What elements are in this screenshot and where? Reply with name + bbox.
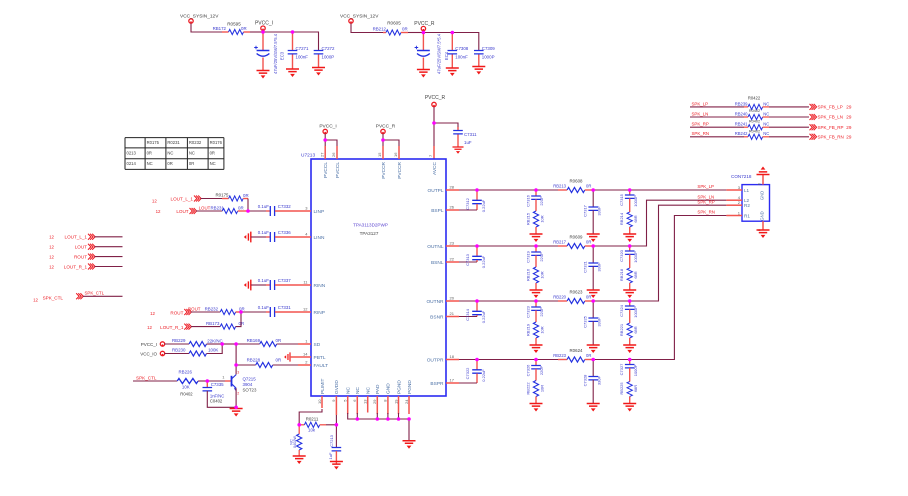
svg-text:VCC_SYSIN_12V: VCC_SYSIN_12V <box>340 14 379 20</box>
resistor R0623 0R series <box>558 300 567 302</box>
svg-text:C7314: C7314 <box>465 308 470 321</box>
capacitor C7309 1000P <box>478 49 480 52</box>
svg-text:29: 29 <box>846 135 852 140</box>
wire ROUT to RB232 <box>191 311 220 313</box>
wire row to snubber <box>477 359 536 361</box>
svg-text:LOUT: LOUT <box>176 209 188 214</box>
svg-text:1000P: 1000P <box>633 306 638 318</box>
pin 15 PVCCR <box>382 146 384 159</box>
junction dots overlay <box>206 30 632 426</box>
connector CON7218 body <box>742 185 770 222</box>
wire C7337 to RINN pin 11 <box>275 284 298 286</box>
pin 4 L2 CON7218 <box>726 199 742 201</box>
svg-text:22K/NC: 22K/NC <box>207 338 222 343</box>
svg-text:R0211: R0211 <box>306 417 319 422</box>
svg-text:RB173: RB173 <box>206 321 220 326</box>
ground for C7309 <box>472 67 485 75</box>
wire SPK_LN output row <box>459 245 477 247</box>
svg-text:SPK_LN: SPK_LN <box>692 111 709 116</box>
svg-text:0R: 0R <box>167 161 172 166</box>
resistor R0175 0R <box>222 198 229 200</box>
resistor RB241 NC <box>744 126 748 128</box>
svg-text:14: 14 <box>303 352 308 357</box>
svg-text:220P: 220P <box>539 252 544 262</box>
svg-text:0213: 0213 <box>127 151 137 156</box>
wire R0595 to PVCC_I node <box>250 31 263 33</box>
wire SPK_RP to connector <box>630 205 727 301</box>
svg-text:0.22uF: 0.22uF <box>481 369 486 382</box>
svg-text:330P: 330P <box>596 375 601 385</box>
svg-text:100nF: 100nF <box>455 55 468 60</box>
svg-text:C0402: C0402 <box>210 399 223 404</box>
wire base node to Q7215 base <box>207 380 225 382</box>
svg-text:NC: NC <box>763 101 769 106</box>
off-page connector SPK_FB_RN <box>810 134 817 140</box>
capacitor C7337 0.1uF <box>251 284 266 286</box>
ground for C7319 <box>530 290 543 298</box>
svg-text:0R: 0R <box>586 353 591 358</box>
svg-text:20: 20 <box>450 296 455 301</box>
power terminal PVCC_R (top) <box>421 26 425 30</box>
svg-text:OUTNL: OUTNL <box>427 244 444 250</box>
svg-text:12: 12 <box>49 245 54 250</box>
svg-text:26: 26 <box>331 152 336 157</box>
svg-text:R0175: R0175 <box>216 193 229 198</box>
svg-text:29: 29 <box>372 399 377 404</box>
svg-text:PVCC_R: PVCC_R <box>414 21 435 27</box>
pin 29 PAD <box>376 396 378 414</box>
wire SPK_LP to connector <box>630 189 727 191</box>
wire to C7327 <box>593 359 630 361</box>
svg-text:0R: 0R <box>402 27 408 32</box>
capacitor C7315 1000P <box>629 190 631 195</box>
svg-text:12: 12 <box>49 264 54 269</box>
svg-text:SPK_CTL: SPK_CTL <box>85 291 105 296</box>
svg-text:ROUT: ROUT <box>170 310 183 315</box>
capacitor C7320 1000P <box>629 246 631 251</box>
ground for pad bus <box>403 441 416 449</box>
svg-text:SPK_CTL: SPK_CTL <box>136 375 157 380</box>
svg-text:R0402: R0402 <box>180 392 193 397</box>
svg-text:0R: 0R <box>210 151 215 156</box>
ground for EC4 <box>417 70 430 78</box>
svg-text:68R: 68R <box>633 385 638 392</box>
wire R0175 to LINP node <box>247 199 249 212</box>
svg-text:0.1uF: 0.1uF <box>258 204 270 209</box>
svg-text:17: 17 <box>450 378 455 383</box>
resistor RB242 NC <box>744 136 748 138</box>
svg-text:PBTL: PBTL <box>314 355 326 361</box>
svg-text:0R: 0R <box>586 294 591 299</box>
ground for RB218 <box>623 290 636 298</box>
wire row to snubber <box>477 189 536 191</box>
svg-text:LOUT_R_1: LOUT_R_1 <box>64 264 88 269</box>
svg-text:PAD: PAD <box>375 384 381 394</box>
svg-text:0R: 0R <box>241 26 247 31</box>
ground for EC3 <box>257 71 270 79</box>
capacitor C7331 0.1uF <box>241 311 266 313</box>
off-page connector SPK_FB_RP <box>810 124 817 130</box>
resistor R0595 0R <box>222 31 229 33</box>
svg-text:OUTPR: OUTPR <box>427 357 444 363</box>
wire snubber to R0624 <box>536 359 558 361</box>
svg-text:0.1uF: 0.1uF <box>258 230 270 235</box>
svg-text:0.22uF: 0.22uF <box>481 310 486 323</box>
resistor to ground NC 0402W <box>298 425 300 434</box>
pin 13 NC <box>367 396 369 413</box>
pin 28 OUTPL <box>446 189 459 191</box>
off-page connector SPK_FB_LN <box>810 114 817 120</box>
svg-text:21: 21 <box>450 311 455 316</box>
svg-text:C7322: C7322 <box>465 367 470 380</box>
capacitor C7324 1000P <box>629 301 631 306</box>
capacitor C7325 330P <box>592 301 594 318</box>
svg-text:12: 12 <box>147 325 152 330</box>
svg-text:C7315: C7315 <box>619 193 624 206</box>
svg-text:SPK_FB_LN: SPK_FB_LN <box>818 115 844 120</box>
pin 1 SD <box>298 343 311 345</box>
svg-text:C7317: C7317 <box>582 204 587 217</box>
resistor RB218 68R <box>627 268 632 283</box>
svg-text:C7335: C7335 <box>211 382 224 387</box>
wire VCC_IO to RB230 <box>165 353 190 355</box>
svg-text:RB239: RB239 <box>735 101 748 106</box>
svg-text:NC: NC <box>147 161 153 166</box>
svg-text:LOUT: LOUT <box>75 245 87 250</box>
svg-text:220P: 220P <box>539 307 544 317</box>
ground for RB221 <box>623 345 636 353</box>
svg-text:C7336: C7336 <box>278 230 291 235</box>
capacitor C7271 100nF <box>292 32 294 50</box>
wire FAULT node down to Q7215 collector <box>235 365 237 375</box>
svg-text:1000P: 1000P <box>482 55 495 60</box>
wire C7331 to RINP pin 12 <box>275 311 298 313</box>
wire RB240 to off-page SPK_FB_LN <box>769 116 809 118</box>
svg-text:SPK_LP: SPK_LP <box>697 184 714 189</box>
svg-text:BSPL: BSPL <box>431 208 444 214</box>
svg-text:RB230: RB230 <box>172 347 186 352</box>
svg-text:0R: 0R <box>243 193 249 198</box>
wire SPK_RN to connector <box>630 216 727 360</box>
wire LOUT_R_1 stub <box>95 266 123 268</box>
svg-text:47uF/25V/SM/7.5*5.4: 47uF/25V/SM/7.5*5.4 <box>273 33 278 74</box>
svg-text:PVCC_R: PVCC_R <box>376 123 396 129</box>
svg-text:SPK_LP: SPK_LP <box>692 101 709 106</box>
wire SPK_CTL stub <box>83 295 123 297</box>
wire LOUT_L_1 to R0175 <box>201 198 223 200</box>
svg-text:RB217: RB217 <box>553 239 566 244</box>
svg-text:C7309: C7309 <box>482 46 495 51</box>
svg-text:RB222: RB222 <box>525 382 530 395</box>
capacitor C7335 1nF/NC <box>206 381 208 388</box>
svg-text:C7320: C7320 <box>619 249 624 262</box>
svg-text:PVCC_I: PVCC_I <box>141 342 157 347</box>
node PVCC_R junction <box>422 31 424 33</box>
wire PVCC_R rail <box>423 33 478 51</box>
capacitor C7317 330P <box>592 190 594 207</box>
svg-text:10: 10 <box>317 399 322 404</box>
capacitor C7272 1000P <box>318 49 320 52</box>
svg-text:RB172: RB172 <box>213 26 227 31</box>
svg-text:PVCC_I: PVCC_I <box>319 123 336 129</box>
svg-text:NC: NC <box>763 111 769 116</box>
wire NC/PAD/GND/PGND ground bus <box>348 413 409 441</box>
power terminal PVCC_I (top) <box>261 26 265 30</box>
wire ROUT stub <box>95 256 123 258</box>
svg-text:L1: L1 <box>744 188 750 193</box>
wire LOUT stub <box>95 246 123 248</box>
capacitor C7319 220P snubber <box>535 246 537 252</box>
svg-text:28: 28 <box>450 185 455 190</box>
svg-text:PVCC_I: PVCC_I <box>255 21 273 27</box>
svg-text:0R: 0R <box>586 239 591 244</box>
pin 10 PLIMIT <box>321 396 323 408</box>
capacitor C7321 330P <box>592 246 594 263</box>
resistor RB215 10R snubber <box>533 211 538 227</box>
svg-text:C7331: C7331 <box>278 305 291 310</box>
pin 19 PGND <box>398 396 400 414</box>
svg-text:LOUT_R_1: LOUT_R_1 <box>160 325 184 330</box>
svg-text:12: 12 <box>156 209 161 214</box>
resistor R0608 0R series <box>558 189 567 191</box>
svg-text:R0232: R0232 <box>189 140 202 145</box>
capacitor C7310 1uF <box>332 448 342 451</box>
svg-text:68R: 68R <box>633 326 638 333</box>
svg-text:3: 3 <box>237 371 239 375</box>
capacitor C7328 330P <box>592 360 594 377</box>
svg-text:1000P: 1000P <box>322 55 335 60</box>
svg-text:22: 22 <box>450 257 455 262</box>
svg-text:SPK_CTL: SPK_CTL <box>43 296 64 301</box>
wire VCC_SYSIN_12V to R0605 <box>351 24 383 33</box>
svg-text:RB220: RB220 <box>553 294 566 299</box>
svg-text:SPK_RP: SPK_RP <box>697 199 714 204</box>
svg-text:FAULT: FAULT <box>314 363 329 369</box>
resistor R0609 0R series <box>558 245 567 247</box>
svg-text:220P: 220P <box>539 196 544 206</box>
svg-text:NC: NC <box>763 131 769 136</box>
ground for C7326 <box>530 404 543 412</box>
pin 9 GVDD <box>335 396 337 415</box>
resistor option table <box>125 138 224 170</box>
svg-text:12: 12 <box>152 198 157 203</box>
svg-text:10R: 10R <box>539 215 544 222</box>
svg-text:C7312: C7312 <box>465 197 470 210</box>
wire LOUT to RB231 <box>196 210 222 212</box>
svg-text:SD: SD <box>314 342 321 348</box>
svg-text:26: 26 <box>450 205 455 210</box>
svg-text:0R: 0R <box>276 338 282 343</box>
wire C7335 to ground node <box>207 391 236 407</box>
svg-text:NC: NC <box>210 161 216 166</box>
wire PVCC_I to PVCCL pins <box>323 129 327 133</box>
resistor RB222 10R snubber <box>533 381 538 397</box>
resistor RB216 10R snubber <box>533 267 538 283</box>
svg-text:PVCCL: PVCCL <box>323 162 329 178</box>
svg-text:VCC_SYSIN_12V: VCC_SYSIN_12V <box>180 14 219 20</box>
pin 8 GND <box>387 396 389 414</box>
svg-text:SPK_RP: SPK_RP <box>692 122 709 127</box>
svg-text:EC3: EC3 <box>280 51 285 60</box>
wire PVCC_R to AVCC pin <box>433 107 435 146</box>
svg-text:R0608: R0608 <box>570 179 583 184</box>
svg-text:LOUT_L_1: LOUT_L_1 <box>171 196 194 201</box>
pin 3 LINP <box>298 210 311 212</box>
svg-text:C7326: C7326 <box>525 364 530 377</box>
wire to C7324 <box>593 300 630 302</box>
power terminal VCC_SYSIN_12V (right) <box>349 19 353 23</box>
wire PLIMIT pin to divider <box>299 409 322 425</box>
wire R0211 to GVDD node <box>326 424 336 426</box>
capacitor C7336 0.1uF <box>251 236 266 238</box>
svg-text:C7316: C7316 <box>525 194 530 207</box>
pin 17 BSPR <box>446 382 459 384</box>
AC ground at PBTL pin <box>284 352 290 361</box>
svg-text:GND: GND <box>386 383 392 394</box>
wire SPK_LP to RB239 <box>690 106 744 108</box>
pin 27 PVCCL <box>324 146 326 159</box>
svg-text:C7308: C7308 <box>455 46 468 51</box>
power terminal PVCC_R (AVCC branch) <box>432 102 436 106</box>
svg-text:1uF: 1uF <box>464 140 472 145</box>
svg-text:10K: 10K <box>182 385 190 390</box>
svg-text:C7328: C7328 <box>582 374 587 387</box>
ground for C7328 <box>587 404 600 412</box>
capacitor C7326 220P snubber <box>535 360 537 366</box>
wire SPK_RN to RB242 <box>690 136 744 138</box>
svg-text:0214: 0214 <box>127 161 137 166</box>
ground for RB214 <box>623 234 636 242</box>
svg-text:C7337: C7337 <box>278 278 291 283</box>
pin 5 CON7218 top ground <box>762 175 764 185</box>
svg-text:RB226: RB226 <box>179 370 193 375</box>
svg-text:100nF: 100nF <box>296 55 309 60</box>
svg-text:12: 12 <box>150 311 155 316</box>
svg-text:12: 12 <box>49 254 54 259</box>
svg-text:68R: 68R <box>633 271 638 278</box>
svg-text:19: 19 <box>393 399 398 404</box>
svg-text:NC: NC <box>189 151 195 156</box>
ground for C7272 <box>312 68 325 76</box>
svg-text:BSPR: BSPR <box>430 381 444 387</box>
wire snubber to R0609 <box>536 245 558 247</box>
wire C7332 to LINP pin 3 <box>275 210 298 212</box>
svg-text:RB229: RB229 <box>172 338 186 343</box>
svg-text:SPK_FB_RP: SPK_FB_RP <box>818 125 844 130</box>
svg-text:CON7218: CON7218 <box>731 174 752 179</box>
svg-text:SPK_RN: SPK_RN <box>692 131 710 136</box>
svg-text:RB232: RB232 <box>205 306 219 311</box>
svg-text:R2: R2 <box>744 203 750 208</box>
svg-text:RB169: RB169 <box>247 338 261 343</box>
resistor RB214 68R <box>627 212 632 227</box>
ground for C7311 <box>452 147 463 154</box>
svg-text:BSNL: BSNL <box>431 260 444 266</box>
svg-text:SPK_RN: SPK_RN <box>697 210 715 215</box>
svg-text:0R: 0R <box>147 151 152 156</box>
svg-text:R0402: R0402 <box>749 109 760 113</box>
wire RB239 to off-page SPK_FB_LP <box>769 106 809 108</box>
svg-text:TPA3127: TPA3127 <box>360 231 379 236</box>
wire LOUT_L_1 stub <box>95 236 123 238</box>
wire SPK_LN to RB240 <box>690 116 744 118</box>
svg-text:10R: 10R <box>539 271 544 278</box>
capacitor C7314 0.22uF bootstrap <box>476 301 478 311</box>
pin 1 R1 CON7218 <box>726 215 742 217</box>
wire to C7315 <box>593 189 630 191</box>
wire RB226 to base node <box>198 380 207 382</box>
wire snubber to R0608 <box>536 189 558 191</box>
wire R0605 to PVCC_R node <box>408 32 423 34</box>
svg-text:C7272: C7272 <box>322 46 335 51</box>
pin 22 BSNL <box>446 261 459 263</box>
svg-text:12: 12 <box>33 298 38 303</box>
pin 5 NC <box>347 396 349 414</box>
wire Q7215 emitter to ground node <box>235 388 237 407</box>
svg-text:0R: 0R <box>189 161 194 166</box>
capacitor C7312 0.22uF bootstrap <box>476 190 478 200</box>
svg-text:R0402: R0402 <box>749 130 760 134</box>
svg-text:RB241: RB241 <box>735 122 748 127</box>
wire SD node down to FAULT node <box>235 344 237 365</box>
node PVCC_I junction <box>262 30 264 32</box>
svg-text:1000P: 1000P <box>633 195 638 207</box>
pin 3 L1 CON7218 <box>726 189 742 191</box>
svg-text:R0402: R0402 <box>749 119 760 123</box>
resistor R0605 0R <box>383 32 386 34</box>
svg-text:13: 13 <box>363 399 368 404</box>
svg-text:PVCCL: PVCCL <box>335 162 341 178</box>
svg-text:0402W: 0402W <box>293 436 297 448</box>
svg-text:C7324: C7324 <box>619 304 624 317</box>
pin 26 PVCCL <box>336 146 338 159</box>
svg-text:RB221: RB221 <box>619 323 624 336</box>
resistor R0624 0R series <box>558 359 567 361</box>
wire GVDD pin down <box>335 415 337 448</box>
wire RB241 to off-page SPK_FB_RP <box>769 126 809 128</box>
svg-text:Q7215: Q7215 <box>243 376 257 381</box>
svg-text:SOT23: SOT23 <box>243 387 257 392</box>
ground for PLIMIT divider <box>293 456 306 464</box>
svg-text:R0623: R0623 <box>570 290 583 295</box>
svg-text:C7213: C7213 <box>329 434 334 447</box>
svg-text:2: 2 <box>237 392 239 396</box>
svg-text:C7321: C7321 <box>582 260 587 273</box>
wire PVCC_I to RB229 <box>165 343 190 345</box>
ground (inverted) at CON7218 top <box>757 167 770 175</box>
svg-text:R0176: R0176 <box>210 140 223 145</box>
pin 2 FAULT <box>298 364 311 366</box>
svg-text:RB223: RB223 <box>553 353 566 358</box>
svg-text:C7327: C7327 <box>619 363 624 376</box>
svg-text:RB213: RB213 <box>553 183 566 188</box>
wire node to RB169 <box>236 343 260 345</box>
pin 6 CON7218 bottom ground <box>762 221 764 230</box>
svg-text:68R: 68R <box>633 215 638 222</box>
wire VCC_SYSIN_12V to R0595 <box>191 24 222 33</box>
svg-text:RB219: RB219 <box>525 323 530 336</box>
svg-text:RB225: RB225 <box>619 382 624 395</box>
wire PVCC_R to PVCCR pins <box>381 129 385 133</box>
wire LOUT_R_1 via RB173 to RINP node <box>191 326 220 328</box>
svg-text:NC: NC <box>346 387 352 394</box>
node SD junction A <box>222 343 236 345</box>
resistor R0211 10k <box>299 424 304 426</box>
svg-text:RB212: RB212 <box>373 27 387 32</box>
ground for C7310 <box>330 462 343 470</box>
svg-text:BSNR: BSNR <box>430 314 444 320</box>
wire row to snubber <box>477 300 536 302</box>
